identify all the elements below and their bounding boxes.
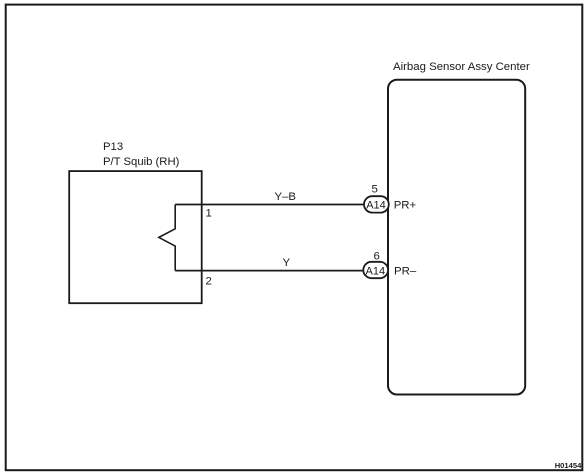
svg-text:6: 6	[374, 251, 380, 263]
pin 1	[206, 208, 212, 220]
svg-text:A14: A14	[366, 266, 386, 278]
wire Y	[175, 270, 364, 272]
svg-text:Y–B: Y–B	[275, 191, 297, 203]
svg-text:P/T Squib (RH): P/T Squib (RH)	[103, 156, 180, 168]
net label PR-	[394, 266, 417, 278]
svg-text:2: 2	[206, 276, 212, 288]
svg-text:Airbag Sensor Assy Center: Airbag Sensor Assy Center	[393, 61, 530, 73]
svg-text:PR–: PR–	[394, 266, 417, 278]
wire Y-B	[175, 204, 364, 206]
svg-text:5: 5	[372, 184, 378, 196]
connector P13 P/T Squib (RH)	[69, 141, 202, 303]
wire label Y-B	[275, 191, 297, 203]
wire label Y	[283, 257, 291, 269]
svg-text:H01454: H01454	[555, 461, 582, 470]
connector A14 pin 6	[363, 251, 388, 279]
net label PR+	[394, 200, 417, 212]
connector A14 pin 5	[364, 184, 389, 213]
svg-text:P13: P13	[103, 141, 123, 153]
svg-text:A14: A14	[366, 200, 386, 212]
svg-text:1: 1	[206, 208, 212, 220]
svg-text:Y: Y	[283, 257, 291, 269]
pin 2	[206, 276, 212, 288]
squib (inflator) element	[159, 205, 175, 271]
ECU Airbag Sensor Assy Center	[388, 61, 530, 395]
figure code H01454	[555, 461, 582, 470]
svg-text:PR+: PR+	[394, 200, 417, 212]
